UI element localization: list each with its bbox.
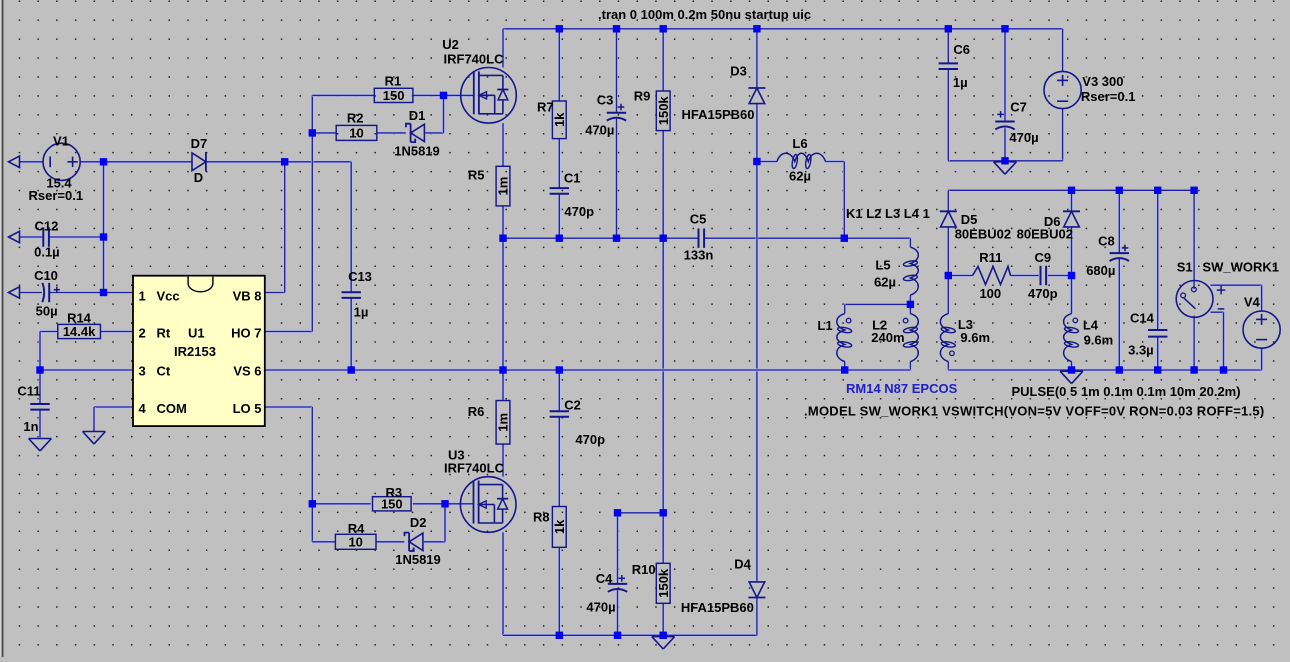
wire D4 cathode to rail bbox=[756, 598, 759, 636]
wire R4 row left bbox=[312, 540, 335, 543]
junction node (756.9,161.5) bbox=[753, 158, 760, 165]
wire top rail to D3 bbox=[756, 29, 759, 88]
svg-text:R9: R9 bbox=[634, 89, 651, 104]
junction node (312.3,132.9) bbox=[309, 129, 316, 136]
wire HO stub bbox=[265, 330, 313, 333]
svg-text:62µ: 62µ bbox=[874, 275, 896, 290]
wire C6 top bbox=[947, 29, 950, 64]
wire COM stub bbox=[94, 406, 133, 409]
voltage source V3 bbox=[1044, 71, 1135, 108]
svg-text:150: 150 bbox=[383, 88, 405, 103]
wire left column V1 to Vcc bbox=[102, 162, 105, 293]
wire V3 bottom bbox=[1061, 109, 1064, 161]
wire R5 to mid node bbox=[502, 206, 505, 238]
svg-text:470p: 470p bbox=[564, 204, 594, 219]
svg-text:1m: 1m bbox=[496, 413, 511, 432]
wire V1 to D7 bbox=[80, 160, 192, 163]
svg-text:VS 6: VS 6 bbox=[233, 364, 261, 379]
capacitor C7 bbox=[995, 100, 1038, 145]
junction node (844.7,370.0) bbox=[841, 366, 848, 373]
wire D5 top bbox=[947, 190, 950, 211]
voltage source V1 bbox=[29, 133, 84, 202]
svg-text:9.6m: 9.6m bbox=[1084, 333, 1114, 348]
wire S1 top bbox=[1193, 190, 1196, 289]
junction node (844.3,238.2) bbox=[841, 235, 848, 242]
wire R2 to D1 bbox=[377, 132, 406, 135]
svg-text:L4: L4 bbox=[1083, 318, 1099, 333]
switch S1 bbox=[1176, 260, 1279, 318]
svg-text:L5: L5 bbox=[875, 258, 890, 273]
svg-text:HFA15PB60: HFA15PB60 bbox=[682, 107, 755, 122]
wire secondary bottom rail bbox=[948, 369, 1261, 372]
wire top rail bbox=[503, 27, 1063, 30]
svg-text:D: D bbox=[194, 170, 203, 185]
svg-text:D3: D3 bbox=[730, 64, 747, 79]
wire C7 top bbox=[1004, 29, 1007, 121]
svg-text:C4: C4 bbox=[596, 571, 613, 586]
wire mid row left of C5 bbox=[503, 237, 698, 240]
svg-text:10: 10 bbox=[349, 126, 363, 141]
inductor L6 bbox=[777, 136, 826, 183]
wire C12 to left column bbox=[49, 236, 103, 239]
svg-text:C6: C6 bbox=[953, 42, 970, 57]
ground bottom rail bbox=[652, 637, 675, 649]
wire S1 minus down bbox=[1222, 312, 1225, 370]
svg-text:V1: V1 bbox=[53, 133, 69, 148]
wire VB stub bbox=[265, 291, 285, 294]
svg-text:80EBU02: 80EBU02 bbox=[1017, 226, 1073, 241]
svg-text:.MODEL SW_WORK1 VSWITCH(VON=5V: .MODEL SW_WORK1 VSWITCH(VON=5V VOFF=0V R… bbox=[804, 403, 1264, 418]
diode D6 bbox=[1017, 211, 1080, 241]
svg-text:133n: 133n bbox=[684, 247, 714, 262]
wire S1 plus to V4 bbox=[1211, 284, 1262, 287]
svg-text:R1: R1 bbox=[385, 73, 402, 88]
wire R14 down to Ct bbox=[39, 332, 42, 371]
wire Ct row bbox=[40, 369, 133, 372]
svg-text:C13: C13 bbox=[348, 269, 372, 284]
capacitor C10 bbox=[34, 268, 60, 319]
svg-text:R8: R8 bbox=[533, 509, 550, 524]
wire R3 to gate node bbox=[413, 502, 445, 505]
capacitor C4 bbox=[586, 571, 627, 615]
resistor R7 bbox=[537, 99, 567, 138]
svg-text:9.6m: 9.6m bbox=[960, 330, 990, 345]
wire LO column down bbox=[311, 407, 314, 542]
diode D3 bbox=[682, 64, 766, 123]
capacitor C6 bbox=[939, 42, 970, 90]
svg-text:R10: R10 bbox=[632, 562, 656, 577]
wire C8 top bbox=[1118, 190, 1121, 253]
junction node (1157.7,370.0) bbox=[1154, 366, 1161, 373]
junction node (284.7,161.8) bbox=[281, 158, 288, 165]
wire HO column up bbox=[311, 95, 314, 331]
inductor L3 bbox=[940, 314, 990, 362]
wire C1 to mid row bbox=[558, 194, 561, 238]
wire R3 row left bbox=[312, 502, 370, 505]
resistor R9 bbox=[634, 89, 671, 131]
wire C4 top bbox=[616, 513, 619, 583]
capacitor C5 bbox=[684, 211, 714, 262]
voltage source V4 bbox=[1243, 295, 1280, 349]
svg-text:R11: R11 bbox=[979, 250, 1002, 265]
junction node (559.3,28.8) bbox=[556, 25, 563, 32]
diode D4 bbox=[681, 556, 765, 615]
junction node (663.2,512.8) bbox=[660, 509, 667, 516]
svg-text:IR2153: IR2153 bbox=[174, 344, 216, 359]
diode D7 bbox=[191, 136, 208, 185]
svg-text:1µ: 1µ bbox=[354, 305, 369, 320]
svg-text:1k: 1k bbox=[552, 519, 567, 534]
svg-text:470p: 470p bbox=[1028, 286, 1058, 301]
wire C14 top bbox=[1156, 190, 1159, 329]
junction node (910.4,304.4) bbox=[907, 301, 914, 308]
junction node (351.2,370.0) bbox=[348, 366, 355, 373]
wire S1 bottom bbox=[1193, 316, 1196, 371]
svg-text:R6: R6 bbox=[468, 404, 485, 419]
wire mid node down to R6 bbox=[502, 238, 505, 400]
ground C11 bbox=[29, 439, 52, 451]
svg-text:C2: C2 bbox=[564, 398, 581, 413]
junction node (40.0,370.0) bbox=[36, 366, 43, 373]
junction node (1071.5,190.3) bbox=[1068, 187, 1075, 194]
junction node (1005.0,28.8) bbox=[1001, 25, 1008, 32]
resistor R4 bbox=[335, 521, 376, 550]
svg-text:3: 3 bbox=[139, 364, 146, 379]
wire U2 source to R5 bbox=[502, 123, 505, 166]
wire port to C10 bbox=[20, 291, 43, 294]
junction node (1194.1,370.0) bbox=[1190, 366, 1197, 373]
wire COM down bbox=[93, 407, 96, 431]
junction node (103.5,292.5) bbox=[100, 289, 107, 296]
svg-text:4: 4 bbox=[139, 401, 147, 416]
resistor R6 bbox=[468, 401, 511, 445]
junction node (1157.7,190.3) bbox=[1154, 187, 1161, 194]
capacitor C3 bbox=[585, 92, 626, 137]
junction node (559.3,238.2) bbox=[556, 235, 563, 242]
wire U3 source down bbox=[502, 532, 505, 635]
svg-text:IRF740LC: IRF740LC bbox=[444, 460, 505, 475]
wire R9 to mid row bbox=[662, 131, 665, 239]
junction node (503.0,370.0) bbox=[499, 366, 506, 373]
svg-text:V3 300: V3 300 bbox=[1082, 74, 1123, 89]
svg-text:1N5819: 1N5819 bbox=[394, 144, 440, 159]
inductor L2 bbox=[871, 314, 918, 362]
wire R9 top bbox=[662, 29, 665, 91]
svg-text:PULSE(0 5 1m 0.1m 0.1m 10m 20.: PULSE(0 5 1m 0.1m 0.1m 10m 20.2m) bbox=[1012, 384, 1241, 399]
svg-text:680µ: 680µ bbox=[1086, 263, 1115, 278]
wire R10 to bottom rail bbox=[662, 603, 665, 635]
svg-text:COM: COM bbox=[157, 401, 187, 416]
diode D1 bbox=[394, 108, 440, 159]
wire L5 tap to L1 bbox=[845, 303, 911, 306]
svg-text:Vcc: Vcc bbox=[157, 289, 180, 304]
wire C6 C7 bottom row bbox=[948, 159, 1062, 162]
svg-text:470p: 470p bbox=[575, 432, 605, 447]
svg-text:100: 100 bbox=[979, 286, 1001, 301]
svg-text:240m: 240m bbox=[871, 330, 904, 345]
resistor R3 bbox=[373, 485, 412, 512]
wire L6 left bbox=[757, 160, 777, 163]
capacitor C11 bbox=[17, 384, 49, 435]
wire R8 to bottom rail bbox=[558, 547, 561, 635]
wire C4 to bottom rail bbox=[616, 590, 619, 635]
svg-text:470µ: 470µ bbox=[1009, 130, 1038, 145]
wire L1 bottom bbox=[843, 362, 846, 370]
svg-text:D1: D1 bbox=[409, 108, 426, 123]
svg-text:SW_WORK1: SW_WORK1 bbox=[1202, 260, 1279, 275]
wire L4 top bbox=[1070, 276, 1073, 314]
svg-text:14.4k: 14.4k bbox=[63, 324, 96, 339]
IC U1 IR2153 bbox=[133, 276, 265, 426]
svg-text:C3: C3 bbox=[597, 92, 614, 107]
wire R11 to C9 bbox=[1011, 274, 1039, 277]
diode D5 bbox=[940, 211, 1011, 241]
junction node (103.5,161.8) bbox=[100, 158, 107, 165]
capacitor C9 bbox=[1028, 250, 1058, 301]
junction node (559.3,370.0) bbox=[556, 366, 563, 373]
wire C3 to mid row bbox=[615, 119, 618, 239]
wire secondary top rail bbox=[948, 189, 1194, 192]
ground secondary bbox=[1060, 371, 1083, 383]
mosfet U3 bbox=[444, 447, 516, 532]
wire mid row right of C5 bbox=[705, 237, 911, 240]
svg-text:10: 10 bbox=[348, 534, 362, 549]
svg-text:HFA15PB60: HFA15PB60 bbox=[681, 600, 754, 615]
wire D2 to corner bbox=[424, 540, 445, 543]
resistor R8 bbox=[533, 507, 567, 548]
svg-text:1: 1 bbox=[139, 289, 146, 304]
svg-text:C5: C5 bbox=[690, 211, 707, 226]
junction node (312.3,503.8) bbox=[309, 500, 316, 507]
wire L2 bottom bbox=[909, 362, 912, 370]
junction node (1005.0,160.8) bbox=[1001, 157, 1008, 164]
wire C9 to L4 column bbox=[1048, 274, 1072, 277]
capacitor C8 bbox=[1086, 234, 1129, 278]
wire R1 row left bbox=[312, 94, 374, 97]
svg-text:1k: 1k bbox=[552, 112, 567, 127]
wire L1 top bbox=[843, 304, 846, 313]
junction node (443.5,95.4) bbox=[440, 92, 447, 99]
wire D1 to corner bbox=[425, 132, 443, 135]
wire VS rail bbox=[265, 369, 911, 372]
svg-text:U1: U1 bbox=[188, 326, 205, 341]
simulation directive bbox=[598, 7, 811, 22]
capacitor C14 bbox=[1128, 311, 1167, 358]
wire C13 to VS rail bbox=[350, 298, 353, 370]
svg-text:80EBU02: 80EBU02 bbox=[955, 226, 1011, 241]
wire R14 left corner bbox=[40, 330, 58, 333]
svg-text:C9: C9 bbox=[1034, 250, 1051, 265]
wire D6 top bbox=[1070, 190, 1073, 211]
wire D1 corner up bbox=[442, 95, 445, 132]
svg-text:C12: C12 bbox=[34, 218, 58, 233]
svg-text:D4: D4 bbox=[734, 556, 751, 571]
svg-text:U2: U2 bbox=[442, 37, 459, 52]
junction node (559.3,635.3) bbox=[556, 632, 563, 639]
svg-text:0.1µ: 0.1µ bbox=[34, 245, 60, 260]
wire R9 column down to R10 bbox=[662, 238, 665, 563]
junction node (1194.1,190.3) bbox=[1190, 187, 1197, 194]
junction node (948.3,28.8) bbox=[945, 25, 952, 32]
svg-text:D5: D5 bbox=[961, 212, 978, 227]
wire R6 to U3 drain bbox=[502, 444, 505, 477]
junction node (1119.3,370.0) bbox=[1116, 366, 1123, 373]
svg-text:R7: R7 bbox=[537, 99, 554, 114]
wire V3 top bbox=[1061, 29, 1064, 72]
label R2 bbox=[347, 110, 364, 125]
wire C14 bottom bbox=[1156, 337, 1159, 370]
wire L3 bottom bbox=[947, 362, 950, 370]
wire gate U2 bbox=[444, 94, 474, 97]
resistor R5 bbox=[468, 166, 511, 206]
wire C7 bottom bbox=[1004, 128, 1007, 161]
junction node (663.2,28.8) bbox=[660, 25, 667, 32]
model directive bbox=[804, 403, 1264, 418]
svg-text:470µ: 470µ bbox=[585, 122, 614, 137]
capacitor C13 bbox=[342, 269, 372, 320]
wire U2 drain bbox=[502, 29, 505, 68]
wire V4 top bbox=[1260, 285, 1263, 311]
inductor L1 bbox=[817, 314, 852, 362]
wire R7 to C1 bbox=[558, 139, 561, 188]
svg-text:Rser=0.1: Rser=0.1 bbox=[29, 188, 84, 203]
svg-text:1µ: 1µ bbox=[953, 75, 968, 90]
wire port to V1 bbox=[20, 160, 43, 163]
wire C11 bottom bbox=[39, 410, 42, 438]
wire L4 bottom bbox=[1070, 362, 1073, 370]
ground COM bbox=[83, 432, 106, 444]
wire D2 corner up bbox=[444, 504, 447, 542]
svg-text:.tran 0 100m 0.2m 50nu startup: .tran 0 100m 0.2m 50nu startup uic bbox=[598, 7, 811, 22]
capacitor C2 bbox=[550, 398, 605, 447]
svg-text:L1: L1 bbox=[817, 318, 832, 333]
svg-text:1n: 1n bbox=[23, 419, 38, 434]
wire D6 to C9 node bbox=[1070, 227, 1073, 276]
wire L5 bottom to L2 top bbox=[909, 295, 912, 314]
resistor R2 bbox=[336, 125, 377, 140]
svg-text:R4: R4 bbox=[348, 521, 365, 536]
junction node (616.5,238.2) bbox=[613, 235, 620, 242]
junction node (1071.5,370.0) bbox=[1068, 366, 1075, 373]
svg-text:C10: C10 bbox=[34, 268, 58, 283]
wire V4 bottom bbox=[1260, 348, 1263, 370]
ground V3 bbox=[994, 162, 1017, 174]
svg-text:Ct: Ct bbox=[157, 364, 171, 379]
junction node (103.5,237.0) bbox=[100, 233, 107, 240]
inductor L5 bbox=[874, 247, 918, 295]
svg-text:2: 2 bbox=[139, 326, 146, 341]
svg-text:HO 7: HO 7 bbox=[231, 326, 261, 341]
wire bottom rail bbox=[503, 634, 757, 637]
svg-text:LO 5: LO 5 bbox=[233, 401, 262, 416]
node K1 coupling directive bbox=[846, 206, 930, 221]
svg-text:S1: S1 bbox=[1177, 260, 1193, 275]
wire C3 top bbox=[615, 29, 618, 113]
wire gate U3 bbox=[445, 502, 474, 505]
junction node (503.0,238.2) bbox=[499, 235, 506, 242]
port arrow V1 bbox=[9, 156, 20, 167]
wire C2 to R8 bbox=[558, 417, 561, 507]
svg-text:C14: C14 bbox=[1130, 311, 1155, 326]
svg-text:1N5819: 1N5819 bbox=[395, 552, 441, 567]
resistor R10 bbox=[632, 562, 671, 603]
junction node (756.9,28.8) bbox=[753, 25, 760, 32]
svg-text:VB 8: VB 8 bbox=[233, 289, 262, 304]
mosfet U2 bbox=[442, 37, 516, 123]
wire L3 top bbox=[947, 276, 950, 314]
wire L6 right bbox=[826, 160, 845, 163]
svg-text:C7: C7 bbox=[1010, 100, 1027, 115]
junction node (1119.3,190.3) bbox=[1116, 187, 1123, 194]
port arrow C10 bbox=[9, 287, 20, 298]
resistor R11 bbox=[973, 250, 1011, 301]
wire LO stub bbox=[265, 406, 313, 409]
svg-text:150k: 150k bbox=[656, 568, 671, 598]
wire C10 to pin Vcc bbox=[49, 291, 133, 294]
svg-text:V4: V4 bbox=[1244, 295, 1261, 310]
port arrow C12 bbox=[9, 231, 20, 242]
svg-text:D7: D7 bbox=[191, 136, 208, 151]
wire C8 bottom bbox=[1118, 259, 1121, 370]
wire R4 to D2 bbox=[376, 540, 404, 543]
junction node (1071.5,275.5) bbox=[1068, 272, 1075, 279]
wire R1 to gate node bbox=[413, 94, 444, 97]
wire mid row corner down to L5 bbox=[909, 238, 912, 247]
transformer core text bbox=[846, 381, 958, 396]
junction node (445.0,503.8) bbox=[441, 500, 448, 507]
svg-text:C11: C11 bbox=[17, 384, 40, 399]
junction node (663.2,238.2) bbox=[660, 235, 667, 242]
svg-text:R5: R5 bbox=[468, 168, 485, 183]
svg-text:K1 L2 L3 L4 1: K1 L2 L3 L4 1 bbox=[846, 206, 930, 221]
pulse directive bbox=[1012, 384, 1241, 399]
svg-text:R14: R14 bbox=[67, 311, 92, 326]
inductor L4 bbox=[1064, 314, 1114, 362]
junction node (663.2,635.3) bbox=[660, 632, 667, 639]
wire C11 top bbox=[39, 370, 42, 404]
wire C2 top bbox=[558, 370, 561, 411]
resistor R1 bbox=[374, 73, 413, 103]
wire L6 down to K node bbox=[843, 162, 846, 239]
resistor R14 bbox=[58, 311, 101, 339]
wire VB column up bbox=[283, 162, 286, 293]
svg-text:Rt: Rt bbox=[157, 326, 171, 341]
junction node (617.5,512.8) bbox=[614, 509, 621, 516]
wire port to C12 bbox=[20, 236, 44, 239]
svg-text:50µ: 50µ bbox=[36, 304, 58, 319]
svg-text:IRF740LC: IRF740LC bbox=[444, 52, 505, 67]
junction node (948.3,275.5) bbox=[945, 272, 952, 279]
wire R7 top bbox=[558, 29, 561, 101]
wire C4 branch horizontal bbox=[618, 511, 664, 514]
wire C13 column upper bbox=[350, 162, 353, 292]
svg-text:L6: L6 bbox=[792, 136, 807, 151]
svg-text:1m: 1m bbox=[496, 177, 511, 196]
wire R2 row left bbox=[312, 132, 336, 135]
svg-text:62µ: 62µ bbox=[789, 169, 811, 184]
junction node (617.5,635.3) bbox=[614, 632, 621, 639]
diode D2 bbox=[395, 515, 441, 567]
svg-text:C1: C1 bbox=[564, 171, 581, 186]
wire D7 to C13 corner bbox=[206, 160, 351, 163]
svg-text:470µ: 470µ bbox=[586, 600, 615, 615]
wire C6 bottom bbox=[947, 69, 950, 161]
capacitor C12 bbox=[34, 218, 60, 259]
svg-text:R3: R3 bbox=[385, 485, 402, 500]
wire D5 to R11 node bbox=[947, 227, 950, 276]
svg-text:Rser=0.1: Rser=0.1 bbox=[1081, 89, 1136, 104]
wire D3 anode column bbox=[756, 104, 759, 582]
